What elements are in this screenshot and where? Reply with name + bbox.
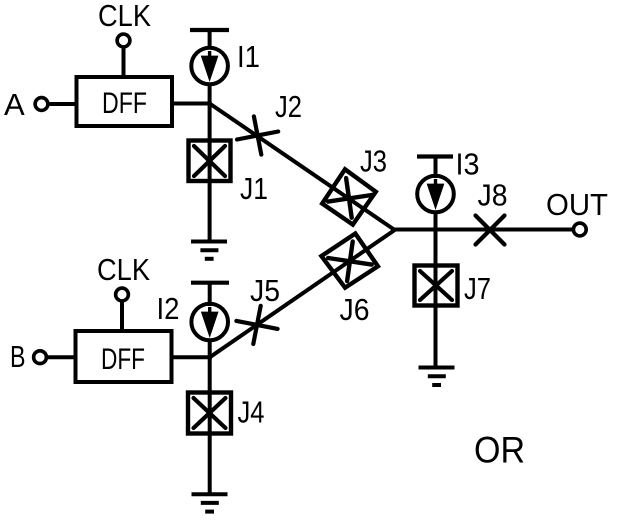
wire node A1 down through J1 to ground xyxy=(208,104,212,242)
svg-text:CLK: CLK xyxy=(97,252,150,287)
Josephson junction J3 (rotated) xyxy=(322,169,376,224)
svg-text:DFF: DFF xyxy=(101,343,145,376)
svg-text:CLK: CLK xyxy=(98,0,151,33)
wire DFF1 output to node A1 xyxy=(172,102,212,106)
wire node B1 down through J4 to ground xyxy=(208,357,212,493)
svg-text:J5: J5 xyxy=(250,273,280,308)
wire diagonal node A1 to node M (through J2, J3) xyxy=(210,104,395,231)
svg-text:J1: J1 xyxy=(240,171,268,206)
DFF U1 (input A latch) xyxy=(77,77,173,126)
Josephson junction J5 (cross on wire) xyxy=(236,306,277,344)
wire diagonal node B1 to node M (through J5, J6) xyxy=(210,230,395,357)
terminal CLK (bottom) xyxy=(116,288,129,301)
wire bias bar to I1 xyxy=(208,30,212,49)
svg-text:A: A xyxy=(4,87,25,122)
wire I1 to node A1 xyxy=(208,83,212,105)
svg-text:J3: J3 xyxy=(360,144,387,179)
Josephson junction J8 (cross on wire) xyxy=(476,216,505,245)
svg-text:OUT: OUT xyxy=(546,187,608,222)
Josephson junction J7 xyxy=(415,266,458,306)
bias rail bar for I3 xyxy=(417,154,453,158)
ground (below J4) xyxy=(192,494,228,511)
ground (below J7) xyxy=(419,368,455,386)
wire bias bar to I2 xyxy=(208,283,212,306)
current source I1 xyxy=(191,48,228,85)
current source I3 xyxy=(417,176,454,213)
wire B terminal to DFF2 xyxy=(47,355,78,359)
terminal A xyxy=(35,98,48,111)
svg-text:OR: OR xyxy=(474,429,525,471)
svg-text:I3: I3 xyxy=(456,147,480,182)
Josephson junction J1 xyxy=(189,141,231,182)
wire CLK terminal to DFF1 top xyxy=(122,47,126,77)
svg-text:J7: J7 xyxy=(464,271,491,306)
svg-text:B: B xyxy=(10,339,26,374)
current source I2 xyxy=(191,304,228,341)
svg-text:J6: J6 xyxy=(340,292,370,327)
wire CLK terminal to DFF2 top xyxy=(120,301,124,331)
wire I3 down through node M and J7 to ground xyxy=(434,212,438,368)
Josephson junction J6 (rotated) xyxy=(321,234,378,288)
svg-text:DFF: DFF xyxy=(102,87,147,120)
DFF U2 (input B latch) xyxy=(76,331,172,382)
bias rail bar for I1 xyxy=(190,28,229,32)
wire DFF2 output to node B1 xyxy=(172,355,212,359)
svg-text:J2: J2 xyxy=(275,89,302,124)
svg-text:I1: I1 xyxy=(237,39,260,74)
svg-text:J8: J8 xyxy=(478,178,508,213)
wire A terminal to DFF1 xyxy=(48,102,78,106)
svg-text:J4: J4 xyxy=(238,395,265,430)
wire I2 to node B1 xyxy=(208,340,212,360)
svg-text:I2: I2 xyxy=(157,291,180,326)
Josephson junction J4 xyxy=(188,393,231,434)
ground (below J1) xyxy=(191,242,227,259)
bias rail bar for I2 xyxy=(191,281,229,285)
wire node M to OUT terminal xyxy=(395,228,573,232)
terminal B xyxy=(34,351,47,364)
terminal OUT xyxy=(573,223,586,236)
wire bias bar to I3 xyxy=(434,157,438,179)
Josephson junction J2 (cross on wire) xyxy=(237,116,278,154)
terminal CLK (top) xyxy=(117,34,130,47)
